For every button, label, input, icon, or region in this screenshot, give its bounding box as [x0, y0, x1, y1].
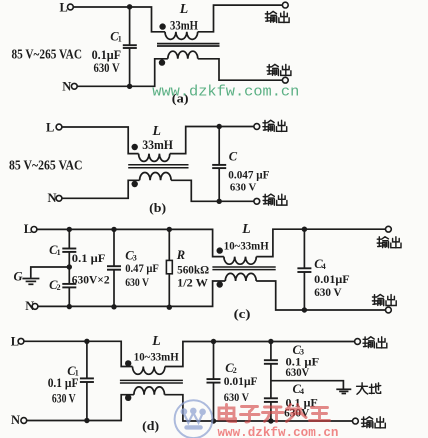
svg-text:4: 4 — [300, 387, 304, 396]
svg-text:1: 1 — [118, 35, 122, 44]
svg-text:G: G — [14, 270, 23, 284]
svg-text:L: L — [241, 221, 250, 236]
svg-text:L: L — [60, 1, 68, 15]
svg-text:N: N — [62, 80, 71, 94]
svg-text:85 V~265 VAC: 85 V~265 VAC — [12, 47, 83, 62]
svg-text:C: C — [229, 149, 238, 163]
svg-text:R: R — [176, 248, 185, 262]
svg-text:630 V: 630 V — [224, 392, 250, 404]
svg-text:(b): (b) — [149, 200, 166, 215]
svg-text:33mH: 33mH — [170, 17, 198, 32]
svg-text:N: N — [48, 191, 57, 205]
svg-text:0.47 μF: 0.47 μF — [125, 263, 159, 275]
svg-text:85 V~265 VAC: 85 V~265 VAC — [9, 158, 83, 173]
svg-text:630V: 630V — [286, 367, 310, 379]
svg-text:0.1 μF: 0.1 μF — [72, 253, 106, 265]
svg-text:www.dzkfw.com.cn: www.dzkfw.com.cn — [152, 82, 299, 100]
svg-text:2: 2 — [57, 283, 61, 292]
svg-text:L: L — [179, 1, 188, 16]
svg-text:0.01μF: 0.01μF — [314, 274, 350, 286]
svg-text:0.1μF: 0.1μF — [92, 48, 122, 62]
svg-text:2: 2 — [233, 366, 237, 375]
svg-text:3: 3 — [300, 348, 304, 357]
svg-text:0.01μF: 0.01μF — [224, 376, 258, 388]
svg-text:(d): (d) — [142, 418, 159, 433]
svg-text:3: 3 — [133, 253, 137, 262]
svg-text:L: L — [152, 123, 161, 138]
svg-text:630V×2: 630V×2 — [72, 274, 110, 286]
svg-text:630 V: 630 V — [314, 287, 342, 299]
svg-text:L: L — [151, 333, 160, 348]
svg-text:1/2 W: 1/2 W — [177, 277, 208, 289]
svg-text:1: 1 — [57, 248, 61, 257]
svg-text:www.dzkfw.com.cn: www.dzkfw.com.cn — [218, 425, 339, 438]
svg-text:10~33mH: 10~33mH — [224, 239, 269, 253]
svg-text:630 V: 630 V — [52, 391, 76, 405]
svg-text:630 V: 630 V — [94, 61, 120, 75]
svg-text:4: 4 — [322, 262, 326, 271]
svg-text:630 V: 630 V — [125, 277, 149, 289]
svg-text:10~33mH: 10~33mH — [134, 349, 179, 363]
svg-text:560kΩ: 560kΩ — [177, 264, 209, 276]
svg-text:33mH: 33mH — [142, 137, 173, 152]
svg-text:L: L — [46, 121, 54, 135]
svg-text:0.047 μF: 0.047 μF — [228, 169, 269, 181]
svg-text:0.1 μF: 0.1 μF — [48, 376, 79, 390]
svg-text:N: N — [11, 413, 20, 427]
svg-text:(c): (c) — [234, 306, 251, 321]
svg-text:630 V: 630 V — [230, 181, 257, 193]
